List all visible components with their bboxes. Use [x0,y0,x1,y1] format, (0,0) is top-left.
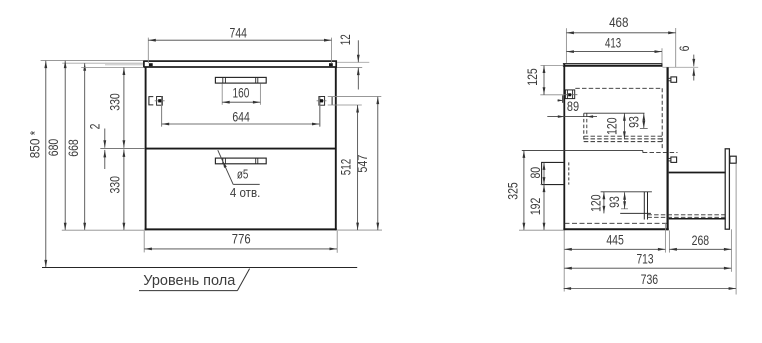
drawer rails (pulled out) [669,173,726,219]
top extension line for 850/680 [41,60,144,62]
floor level label [139,269,250,291]
drawer front panel (side) [725,149,729,229]
back rail cutout (80) [542,162,569,184]
dimension 89 [547,98,597,118]
svg-text:4 отв.: 4 отв. [230,185,261,200]
dimension 6 [676,45,695,80]
hidden inner face (dashed) [661,88,663,150]
dimension 668 [65,63,86,230]
svg-text:268: 268 [692,232,710,248]
handle H1 (top drawer) [215,77,266,83]
side panel body [563,63,668,230]
wall level lines (grey) [62,63,143,65]
dimension 80 [527,162,546,184]
dimension 325 [505,150,526,230]
svg-text:744: 744 [230,25,247,41]
leader diameter 5, 4 holes [218,150,261,200]
svg-text:120: 120 [603,117,619,134]
wall bracket left (in countertop) [149,63,153,66]
dimension 413 [566,34,662,63]
svg-text:680: 680 [45,139,61,157]
dimension 713 [564,230,731,291]
dimension 12 [337,34,369,89]
dimension 445 [564,223,665,253]
svg-text:547: 547 [354,154,370,172]
dimension 736 [564,164,737,295]
dimension 850 [27,61,48,268]
svg-text:93: 93 [626,116,642,128]
hidden top shelf (dashed) [575,87,661,89]
divider extension line [100,148,145,150]
countertop (front view) [144,61,336,67]
svg-text:ø5: ø5 [237,167,249,182]
bottom extension line left [62,229,145,231]
floor line [42,267,357,269]
dimension 680 [45,61,67,231]
svg-text:413: 413 [605,34,621,50]
dimension 512 [337,105,359,230]
svg-text:776: 776 [232,231,251,247]
svg-text:93: 93 [606,196,622,208]
dimension 468 [566,14,675,67]
bottom extension (side, left) [519,229,563,231]
dimension 2 [87,123,107,169]
dimension 93 lower [606,192,626,209]
drawer bottom hidden (dashed) [647,215,725,218]
hinge plate upper (side) [668,77,677,82]
side bracket left [149,97,165,127]
svg-text:192: 192 [527,197,543,215]
dimension 330 top [107,68,126,148]
wall bracket right (in countertop) [329,63,333,66]
drawer divider line [145,148,336,150]
bracket tick mark [558,95,563,102]
dimension 547 [354,97,379,231]
svg-text:325: 325 [505,182,521,200]
upper drawer hidden box (dashed) [584,113,663,142]
svg-text:Уровень пола: Уровень пола [143,273,236,289]
svg-text:80: 80 [527,167,543,179]
svg-text:6: 6 [676,45,692,51]
dimension 776 [144,231,337,253]
dimension 192 [527,185,546,231]
svg-text:12: 12 [337,34,353,45]
wall bracket (side view) [564,90,578,99]
svg-text:120: 120 [588,194,604,211]
svg-text:445: 445 [606,232,624,248]
svg-text:644: 644 [232,109,250,125]
dimension 125 [524,66,564,95]
svg-text:89: 89 [567,98,579,114]
svg-text:160: 160 [233,85,250,101]
svg-text:468: 468 [609,14,629,30]
extension line box top [81,67,144,69]
lower drawer lines [601,192,652,220]
dimension 268 [669,229,731,271]
cabinet bottom hidden (dashed) [565,222,667,224]
dimension 120 lower [588,192,606,214]
svg-text:512: 512 [337,159,353,176]
dimension 93 upper [626,113,646,128]
dimension 120 upper [603,113,626,139]
svg-text:330: 330 [107,93,123,111]
upper tick line [640,127,648,129]
svg-text:736: 736 [641,271,659,287]
middle step line [522,150,678,152]
handle H2 (bottom drawer) [215,158,266,164]
dimension 744 [148,25,331,63]
drawer handle (side) [730,156,736,163]
svg-text:713: 713 [637,251,654,267]
dimension 644 [162,105,320,126]
countertop edge (side view) [563,63,663,66]
hinge plate lower (side) [668,157,677,162]
extension lines for 547 and 512 [328,97,382,231]
svg-text:850 *: 850 * [27,130,43,158]
svg-text:330: 330 [107,176,123,194]
top grey line (side) [662,66,698,68]
side bracket right [317,97,333,127]
svg-text:2: 2 [87,123,103,129]
dimension 160 [222,84,260,105]
cabinet body (front view) [145,67,337,230]
svg-text:668: 668 [65,139,81,157]
svg-text:125: 125 [524,68,540,86]
dimension 330 bottom [107,149,126,230]
